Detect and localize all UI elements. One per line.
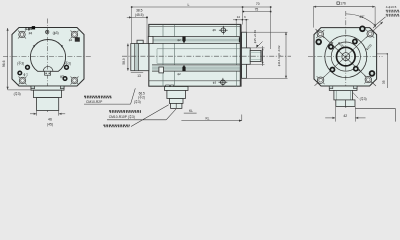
- body joint line 1: [162, 25, 164, 87]
- bottom cover inner line: [149, 80, 241, 82]
- svg-text:(주3): (주3): [360, 97, 367, 101]
- svg-text:58.9: 58.9: [122, 58, 126, 64]
- label brake connector line1: [84, 96, 112, 97]
- svg-text:KL: KL: [205, 117, 209, 121]
- connector bumps: [166, 85, 170, 87]
- connector stack step1: [165, 87, 189, 91]
- small top hole: [46, 30, 49, 33]
- top tie-rod band: [152, 37, 241, 44]
- svg-text:ϕ35 +0.01: ϕ35 +0.01: [253, 29, 257, 43]
- extra hole top: [359, 26, 366, 33]
- svg-text:ϕ3: ϕ3: [60, 74, 64, 78]
- corner hole bottom-right: [71, 77, 79, 85]
- dim 13 under rear cover: [131, 72, 143, 74]
- right view bottom stack step2: [334, 90, 353, 100]
- bolt circle dark hole SE: [353, 66, 359, 72]
- left view bottom shaft step 1: [31, 86, 64, 90]
- connector stack step2: [167, 90, 186, 98]
- svg-text:70: 70: [256, 2, 260, 6]
- svg-text:45°: 45°: [360, 15, 366, 19]
- label square 176: [337, 2, 340, 5]
- circle r14.6: [331, 42, 360, 71]
- left view bottom shaft step 3: [37, 98, 59, 111]
- dim phi35 vertical line: [262, 46, 264, 66]
- left view: motor flange front view outline: [12, 28, 84, 87]
- diagonal dim arrowheads: [330, 41, 333, 44]
- inner dome arc above flat: [43, 66, 53, 71]
- inner circle r4: [342, 53, 350, 61]
- svg-text:46: 46: [48, 118, 52, 122]
- body joint line 2: [174, 25, 176, 87]
- bolt circle dark hole SW: [329, 67, 335, 73]
- dim phi114.3 vertical line: [285, 32, 287, 78]
- middle view main body: [149, 24, 241, 86]
- svg-text:ϕ6: ϕ6: [212, 28, 216, 32]
- svg-text:(주3): (주3): [17, 61, 24, 65]
- rear cover top tab: [137, 40, 143, 43]
- leader power connector: [131, 105, 169, 127]
- diagonal dim line TL-BR: [316, 29, 377, 86]
- svg-text:ϕ2: ϕ2: [69, 38, 73, 42]
- ext line at y=90: [8, 89, 31, 91]
- svg-text:ϕ2: ϕ2: [177, 72, 181, 76]
- outer circle phi130: [325, 36, 367, 78]
- svg-text:#4: #4: [29, 32, 33, 36]
- label encoder connector line1: [109, 111, 141, 112]
- corner hole top-left: [18, 31, 26, 39]
- phi35 ext lines: [250, 47, 264, 49]
- left view horizontal centerline: [3, 56, 91, 58]
- rear cover diameter dim: [127, 44, 129, 71]
- ext lines top dims: [270, 7, 272, 49]
- svg-text:ϕ 1: ϕ 1: [23, 72, 28, 76]
- dim 38.5 line: [127, 16, 147, 18]
- right side dim leader: [377, 53, 388, 55]
- svg-text:96.6: 96.6: [2, 60, 6, 67]
- svg-text:176: 176: [340, 2, 346, 6]
- body right edge thick: [240, 25, 242, 87]
- KL dim long: [181, 120, 241, 122]
- dim 42: [334, 107, 336, 122]
- extra hole bottom-right: [369, 70, 376, 77]
- svg-text:L: L: [188, 3, 190, 7]
- svg-text:KL: KL: [189, 109, 193, 113]
- body joint line right: [235, 25, 237, 87]
- right view corner hole BL: [317, 76, 325, 84]
- step1 side tabs: [31, 86, 35, 89]
- svg-text:(45.5): (45.5): [135, 13, 144, 17]
- small tapped hole left: [25, 65, 30, 70]
- second dim line 75: [243, 11, 270, 13]
- bottom tie-rod band: [152, 65, 241, 71]
- extra hole left edge: [315, 39, 322, 46]
- svg-text:35: 35: [382, 80, 386, 84]
- bolt symbol with down arrow on top band: [182, 37, 185, 42]
- svg-text:4-ϕ13.5: 4-ϕ13.5: [386, 5, 397, 9]
- right view horizontal centerline: [308, 56, 383, 58]
- hanger hole symbol top: [221, 28, 226, 33]
- hanger hole symbol bottom: [221, 80, 226, 85]
- svg-text:75: 75: [255, 7, 259, 11]
- left view bottom shaft step 2: [34, 90, 62, 97]
- right view corner hole TR: [366, 30, 374, 38]
- shaft boss step: [242, 48, 251, 64]
- note leader: [376, 17, 385, 25]
- svg-text:ϕ114.3 g6 -0.02: ϕ114.3 g6 -0.02: [277, 45, 281, 66]
- right view corner hole TL: [316, 30, 324, 38]
- dark label box near top-right hole: [75, 37, 80, 41]
- small hole + label phi3: [62, 76, 67, 81]
- left view pilot boss circle with flat bottom: [30, 40, 65, 72]
- leader underline 1: [84, 103, 131, 105]
- right view bottom stack step3 two boxes: [336, 100, 355, 107]
- right L-shaped dim line: [355, 108, 395, 110]
- right view flange outline: [314, 28, 377, 86]
- top dim line L: [132, 6, 271, 8]
- top dim 176 line: [313, 6, 375, 8]
- svg-text:13: 13: [137, 74, 141, 78]
- svg-text:14: 14: [237, 15, 241, 19]
- shaft: [250, 50, 261, 61]
- connector stack step4: [171, 103, 182, 108]
- connector stack step3: [169, 99, 183, 104]
- left view vertical centerline: [47, 19, 49, 113]
- shaft end face double line: [260, 50, 262, 61]
- dim 46 extension lines: [36, 111, 38, 116]
- keyway tab at bottom of boss: [45, 71, 51, 75]
- 45 degree arc: [346, 14, 376, 27]
- svg-text:(주3): (주3): [14, 92, 21, 96]
- right view corner hole BR: [364, 76, 372, 84]
- dim phi114.3 ext lines: [246, 31, 287, 33]
- svg-text:ϕ3: ϕ3: [213, 81, 217, 85]
- corner hole top-right: [71, 31, 79, 39]
- left vertical dim line 96.6: [7, 28, 9, 90]
- leader underline 2: [107, 119, 166, 121]
- keyway leader arrow: [255, 45, 258, 48]
- pilot circle dimension arrowheads: [33, 44, 37, 48]
- front flange spigot: [242, 32, 247, 78]
- svg-text:CM10-R10P (주3): CM10-R10P (주3): [109, 115, 135, 119]
- svg-text:ϕ2: ϕ2: [177, 38, 181, 42]
- middle view horizontal centerline: [122, 55, 291, 57]
- interior boss hidden line bottom: [157, 62, 241, 64]
- interior boss hidden line top: [157, 48, 241, 50]
- small hole + label phi1: [17, 70, 22, 75]
- rear cover darker band: [135, 44, 139, 71]
- rear cover block: [131, 44, 149, 71]
- thick dark circle r9.3: [337, 47, 356, 66]
- diagonal dim line BL-TR: [315, 22, 383, 86]
- right view bottom stack step1: [329, 86, 357, 90]
- svg-text:CM10-R2P: CM10-R2P: [86, 100, 103, 104]
- small tapped hole right: [64, 65, 69, 70]
- interior vertical line at 157: [156, 49, 158, 64]
- bolt circle dark hole NW: [328, 44, 334, 50]
- bolt symbol with up arrow on bottom band: [182, 67, 185, 72]
- small box on bottom band left: [159, 67, 164, 73]
- right view vertical centerline: [345, 11, 347, 109]
- svg-text:(주3): (주3): [134, 100, 141, 104]
- svg-text:4-ϕ9: 4-ϕ9: [25, 27, 32, 31]
- tie rod nut dark square at right edge: [239, 37, 243, 42]
- top cover inner line: [149, 26, 241, 28]
- svg-text:(주3): (주3): [64, 61, 71, 65]
- bolt circle dark hole NE: [352, 39, 358, 45]
- dim 46 dimension line with arrows: [30, 113, 37, 115]
- svg-text:(45): (45): [47, 123, 53, 127]
- label power connector: [103, 125, 129, 126]
- corner hole bottom-left: [19, 77, 27, 85]
- small box on top band left: [148, 37, 153, 44]
- svg-text:(ϕ3): (ϕ3): [53, 31, 59, 35]
- svg-text:42: 42: [343, 114, 347, 118]
- svg-text:3: 3: [244, 15, 246, 19]
